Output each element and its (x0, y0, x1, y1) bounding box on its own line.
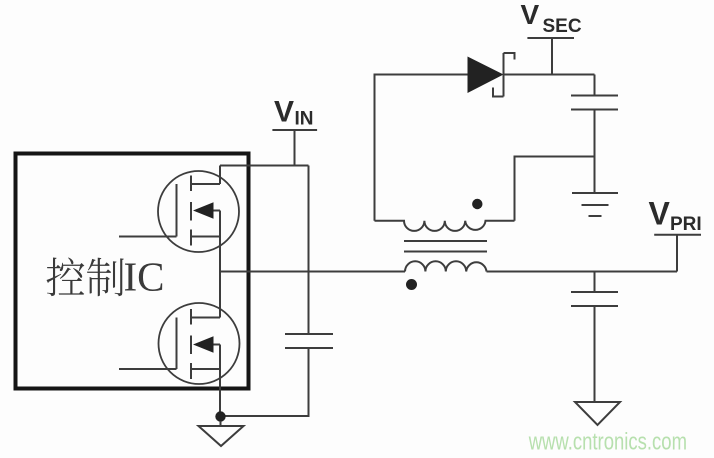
svg-text:IC: IC (124, 254, 165, 300)
wire junction to C3 (594, 272, 596, 293)
svg-text:V: V (274, 96, 294, 129)
node VIN bar (272, 129, 317, 131)
transistor Q2 (lower MOSFET) (119, 303, 240, 416)
svg-text:www.cntronics.com: www.cntronics.com (528, 429, 687, 456)
wire top: Q1 drain to bus (220, 165, 309, 167)
node VSEC label (521, 0, 582, 37)
ground (primary, right) (575, 402, 620, 425)
node VPRI label (649, 196, 702, 236)
label 控制IC (47, 254, 165, 300)
transformer T1 primary winding (405, 261, 487, 271)
wire VIN stub (294, 130, 296, 166)
svg-text:V: V (649, 196, 671, 232)
ground earth (secondary) (572, 193, 618, 216)
wire C2 bottom to earth ground (594, 110, 596, 194)
wire mid: half-bridge node to primary (220, 271, 405, 273)
control IC box (16, 154, 249, 389)
wire secondary left up to diode (375, 75, 468, 221)
svg-text:PRI: PRI (670, 214, 702, 235)
polarity dot primary (406, 279, 417, 290)
wire C1 bottom to ground rail (220, 348, 309, 416)
svg-text:SEC: SEC (543, 16, 582, 37)
wire bus down to C1 (308, 166, 310, 335)
transformer T1 core (404, 241, 487, 252)
wire secondary return (515, 157, 595, 221)
wire diode cathode to C2 (504, 74, 595, 76)
node VIN label (274, 96, 314, 130)
wire VSEC stub (551, 38, 553, 75)
svg-text:IN: IN (295, 109, 314, 130)
wire C3 to ground (594, 306, 596, 402)
capacitor C2 (571, 96, 618, 110)
capacitor C1 (285, 334, 333, 348)
transistor Q1 (upper MOSFET) (119, 166, 239, 318)
wire VPRI stub (676, 235, 678, 272)
svg-text:V: V (521, 0, 540, 30)
node VPRI bar (654, 234, 701, 236)
diode D1 (Schottky) (468, 57, 504, 94)
junction dot ground node (215, 411, 225, 421)
node VSEC bar (527, 37, 574, 39)
capacitor C3 (571, 292, 618, 306)
wire down to C2 (594, 75, 596, 96)
transformer T1 secondary winding (375, 221, 515, 231)
ground (signal, left) (220, 421, 222, 426)
wire primary to VPRI (487, 271, 678, 273)
polarity dot secondary (472, 199, 482, 209)
